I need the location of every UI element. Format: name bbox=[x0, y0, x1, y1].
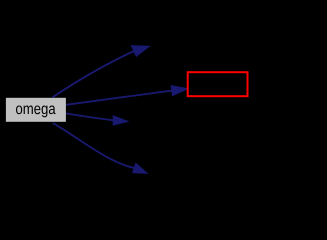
arrowhead to red node bbox=[171, 86, 188, 96]
arrowhead top edge bbox=[131, 46, 149, 57]
arrowhead middle edge bbox=[113, 116, 128, 125]
highlighted node (red rectangle, empty) bbox=[188, 72, 248, 96]
arrowhead bottom edge bbox=[133, 163, 148, 173]
edge omega->middle node (wire) bbox=[66, 113, 113, 120]
edge omega->top node (wire) bbox=[53, 51, 135, 97]
edge omega->bottom node (wire) bbox=[53, 123, 135, 168]
node omega (box) bbox=[6, 98, 66, 122]
edge omega->red node (wire) bbox=[66, 91, 172, 105]
node omega label bbox=[16, 106, 56, 118]
